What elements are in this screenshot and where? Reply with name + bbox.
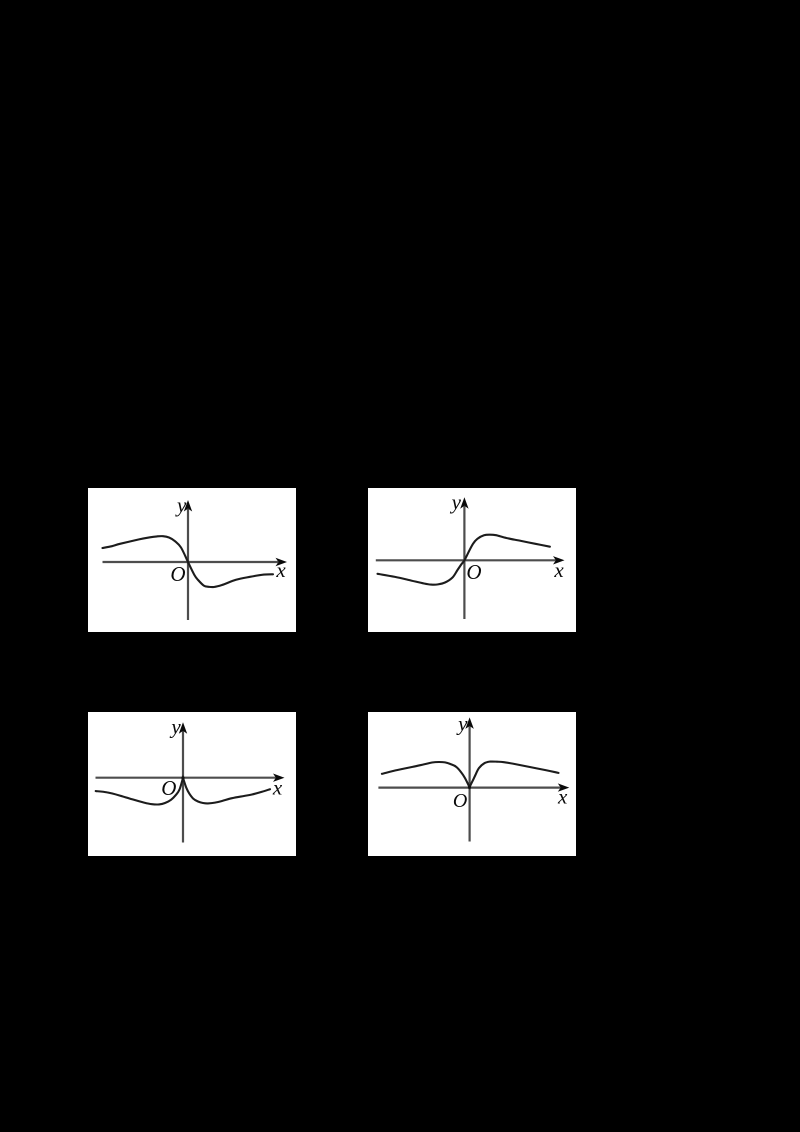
y-axis arrowhead (465, 717, 473, 729)
curve (below axis, cusp at O) (96, 778, 270, 805)
x-axis (96, 777, 277, 779)
svg-text:x: x (275, 558, 286, 582)
y-axis (187, 509, 189, 620)
y-axis arrowhead (460, 497, 468, 509)
x-axis arrowhead (276, 558, 288, 566)
y-axis (182, 731, 184, 843)
x-axis (103, 561, 279, 563)
svg-text:O: O (453, 790, 467, 812)
svg-text:y: y (175, 493, 187, 517)
y-axis arrowhead (184, 500, 192, 512)
panel A white box (88, 488, 296, 632)
svg-text:x: x (553, 558, 564, 582)
svg-text:y: y (450, 490, 462, 514)
svg-text:O: O (466, 560, 481, 584)
svg-text:x: x (557, 785, 568, 809)
y-axis (463, 506, 465, 619)
x-axis (378, 786, 561, 788)
x-axis arrowhead (558, 783, 570, 791)
svg-text:O: O (161, 776, 176, 800)
curve (odd, rising through O) (378, 535, 550, 585)
panel D white box (368, 712, 576, 856)
curve (above axis, V-cusp at O) (382, 762, 559, 788)
x-axis (376, 559, 556, 561)
svg-text:y: y (169, 715, 181, 739)
curve (odd, falling through O) (103, 536, 274, 587)
panel C white box (88, 712, 296, 856)
svg-text:x: x (272, 776, 283, 800)
origin dot (468, 786, 471, 789)
panel B white box (368, 488, 576, 632)
x-axis arrowhead (273, 774, 285, 782)
x-axis arrowhead (553, 556, 565, 564)
svg-text:O: O (170, 562, 185, 586)
y-axis (469, 726, 471, 842)
origin dot (181, 776, 184, 779)
svg-text:y: y (456, 712, 468, 736)
y-axis arrowhead (179, 722, 187, 734)
